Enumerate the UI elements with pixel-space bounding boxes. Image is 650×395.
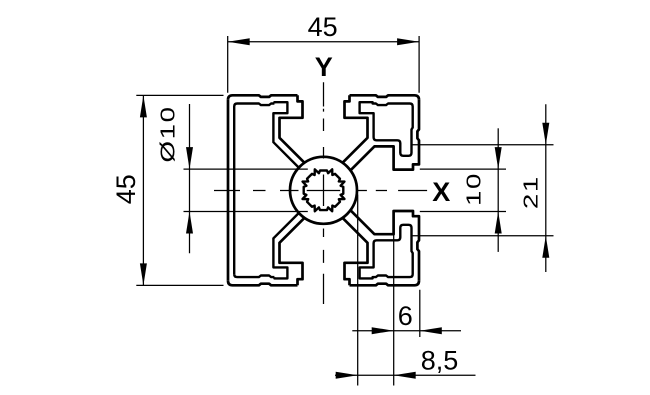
svg-text:45: 45 (308, 12, 338, 42)
svg-text:21: 21 (520, 175, 543, 209)
profile body: aluminium extrusion cross-section, upper half (228, 95, 419, 190)
svg-text:Y: Y (315, 52, 333, 82)
dimension: overall height 45 (left) (111, 95, 223, 285)
svg-text:8,5: 8,5 (421, 345, 459, 375)
dimension: slot outer step width 21 (right) (412, 104, 554, 272)
slot lip: top slot right lip with retaining step (343, 95, 368, 162)
dimension: slot lip depth 6 (bottom) (352, 195, 461, 386)
wire: top outer face, right of slot (with marking notch) (350, 95, 420, 100)
central core tube (outer circle) (290, 157, 357, 224)
svg-text:45: 45 (111, 174, 141, 204)
wire: left inner wall, upper half (233, 107, 235, 191)
wire: right outer face upper + right slot upper lip (350, 100, 419, 171)
wire: top inner wall line, left of slot (234, 104, 274, 107)
dimension: wall offset 8,5 (bottom) (335, 345, 476, 379)
cavity: top-left chamber wall with lip groove (273, 102, 298, 167)
svg-text:X: X (432, 177, 450, 207)
wire: left outer face, upper half (227, 100, 230, 191)
cavity: top-right chamber (closed loop with grooves) (360, 102, 413, 156)
wire: top outer face, left of slot (with marking notch) (228, 95, 298, 100)
centerline: X axis (dash-dot) (214, 190, 427, 192)
svg-text:10: 10 (463, 172, 486, 206)
svg-text:Ø10: Ø10 (157, 105, 180, 162)
slot lip: top slot left lip with retaining step (280, 95, 305, 162)
dimension: slot opening width 10 (right) (420, 128, 506, 252)
centerline: Y axis (dash-dot) (323, 82, 325, 304)
dimension: core bore diameter &#216;10 (157, 104, 308, 253)
profile body: lower half (mirror) (228, 190, 419, 285)
core bore: serrated thread-forming channel (303, 169, 345, 211)
svg-text:6: 6 (398, 301, 413, 331)
dimension: overall width 45 (top) (228, 12, 419, 93)
